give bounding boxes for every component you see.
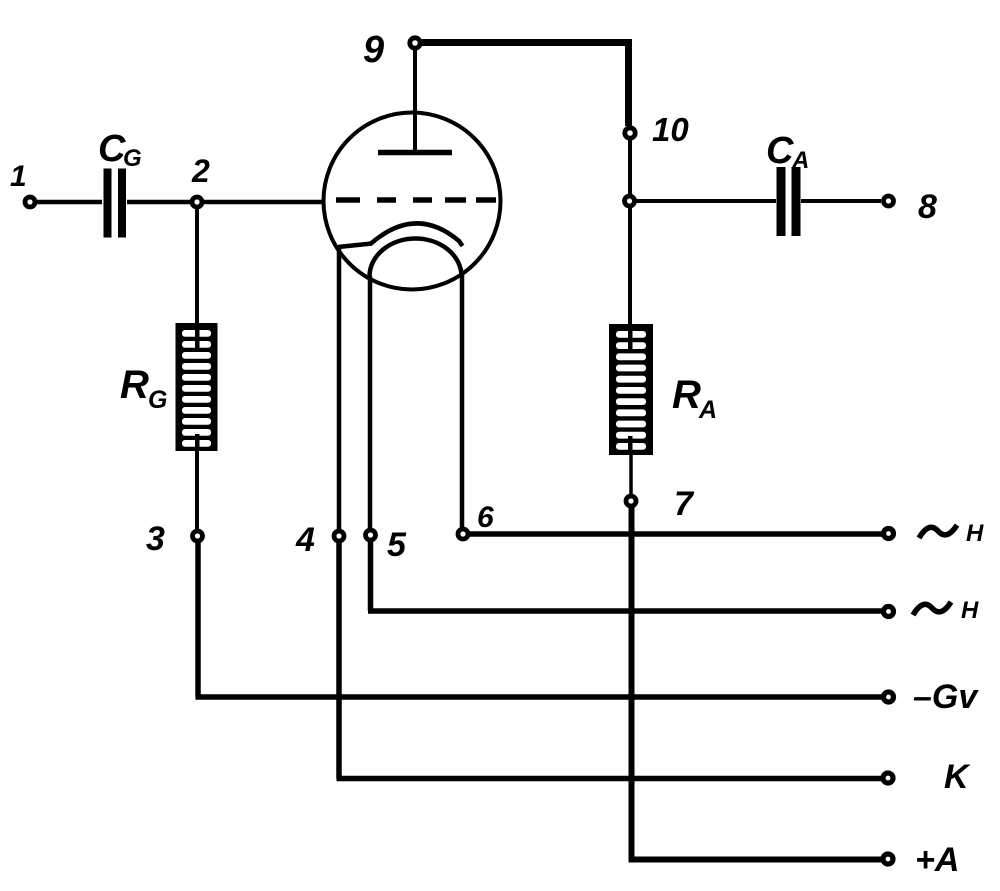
svg-text:7: 7 [674, 485, 695, 523]
node 4 [334, 531, 344, 541]
wire node2 to tube [204, 200, 325, 205]
wire terminal1 to CG [37, 200, 102, 205]
terminal H2 [884, 607, 894, 617]
tube grid dashed [336, 197, 496, 203]
label CA [766, 130, 809, 174]
svg-text:5: 5 [387, 526, 407, 564]
wire RG to node 3 [195, 451, 199, 529]
svg-text:C: C [766, 130, 794, 172]
wire 10 to anode node [628, 140, 632, 194]
terminal 9 [410, 38, 420, 48]
wire node to CA [636, 199, 776, 203]
svg-text:8: 8 [918, 188, 937, 226]
resistor RA [609, 324, 653, 455]
svg-text:–Gv: –Gv [913, 678, 979, 716]
node 6 [458, 529, 468, 539]
svg-text:9: 9 [363, 29, 384, 71]
node 3 [193, 531, 203, 541]
terminal H1 [884, 529, 894, 539]
anode bar [378, 150, 452, 156]
heater dome [369, 238, 461, 277]
wire node4 to K [337, 541, 885, 779]
svg-text:H: H [961, 597, 979, 624]
svg-text:C: C [98, 128, 126, 170]
svg-text:3: 3 [146, 520, 165, 558]
svg-text:R: R [120, 363, 149, 407]
wire node down to RA [628, 207, 632, 325]
capacitor CG [104, 169, 127, 238]
wire RA to node 7 [629, 455, 633, 495]
label H1 tilde [919, 525, 957, 538]
svg-text:A: A [698, 396, 717, 424]
label H2 tilde [913, 602, 951, 615]
wire 9 to 10 thick [422, 43, 629, 127]
resistor RG [176, 323, 218, 451]
wire node5 to second H terminal [368, 540, 884, 611]
svg-text:4: 4 [295, 521, 315, 559]
svg-text:G: G [148, 386, 167, 414]
capacitor CA [777, 167, 801, 236]
wire node2 down to RG [195, 208, 199, 324]
node 2 [192, 197, 202, 207]
svg-text:K: K [944, 758, 971, 796]
svg-text:G: G [123, 145, 142, 172]
terminal -GV [884, 692, 894, 702]
lead wire pin6 [460, 274, 465, 528]
anode node junction [625, 196, 635, 206]
terminal +A [883, 854, 893, 864]
label RA [672, 373, 717, 424]
svg-text:6: 6 [477, 501, 494, 534]
svg-text:A: A [791, 147, 809, 174]
label CG [98, 128, 142, 172]
cathode arc [371, 223, 463, 246]
terminal 10 [625, 128, 635, 138]
terminal K [883, 773, 893, 783]
node 7 [626, 496, 636, 506]
tube V1 envelope [324, 113, 501, 290]
wire CG to node2 [127, 200, 190, 205]
svg-text:10: 10 [652, 111, 689, 148]
lead wire pin4 [337, 247, 342, 530]
anode lead wire [413, 50, 417, 152]
svg-text:+A: +A [915, 841, 959, 879]
lead wire pin5 [368, 276, 373, 529]
node 5 [366, 530, 376, 540]
wire node3 to -GV [196, 541, 885, 697]
svg-text:R: R [672, 373, 701, 417]
wire node6 to first H terminal [468, 531, 884, 537]
svg-text:1: 1 [10, 160, 27, 193]
label RG [120, 363, 167, 414]
terminal 1 [25, 197, 35, 207]
terminal 8 [884, 196, 894, 206]
wire node7 to +A [629, 506, 885, 860]
svg-text:2: 2 [191, 153, 210, 189]
svg-text:H: H [966, 520, 984, 547]
wire CA to terminal 8 [801, 199, 881, 203]
cathode jog wire [338, 244, 372, 248]
